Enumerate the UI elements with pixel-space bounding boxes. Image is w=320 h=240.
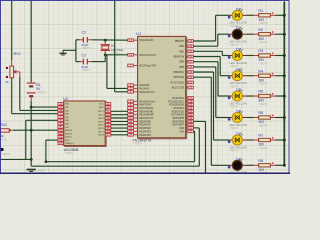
wire <box>218 33 229 35</box>
wire <box>205 121 207 173</box>
U1 pin 33 RB0/INT <box>175 39 193 43</box>
U1 pin 7 RA5/AN4/SS <box>128 106 154 110</box>
node <box>283 14 286 17</box>
wire <box>107 87 128 89</box>
svg-text:C2: C2 <box>82 30 87 34</box>
U1 pin 6 RA4/T0CKI <box>128 103 152 107</box>
U1 pin 3 RA1/AN1 <box>128 86 150 90</box>
potentiometer RV2 <box>1 123 13 141</box>
wire <box>193 56 220 58</box>
svg-text:RB7/PGD: RB7/PGD <box>174 76 185 79</box>
svg-text:RB6/PGC: RB6/PGC <box>174 71 185 74</box>
node <box>283 74 286 77</box>
wire <box>193 66 215 68</box>
LED D2 <box>229 26 247 47</box>
wire <box>75 40 77 62</box>
node <box>228 76 231 79</box>
svg-text:VREF(+): VREF(+) <box>65 143 74 145</box>
wire OSC2 net <box>105 54 128 56</box>
wire <box>76 61 80 63</box>
U1 pin 38 RB5 <box>179 65 193 69</box>
node <box>30 129 33 132</box>
U1 pin 5 RA3/AN3/Vref+ <box>128 99 156 103</box>
wire <box>11 78 13 114</box>
svg-text:<TEXT>: <TEXT> <box>258 102 268 106</box>
U2 pin 21 OUT1 <box>98 110 111 113</box>
U1 pin 10 RE2/AN7/CS <box>128 116 154 120</box>
svg-text:ADD A: ADD A <box>65 129 72 132</box>
svg-text:<TEXT>: <TEXT> <box>37 169 47 173</box>
ADC U2 ADC0808 <box>63 96 106 155</box>
crystal X1 <box>100 40 124 55</box>
node <box>283 139 286 142</box>
U1 pin 26 RC7/RX/DT <box>171 113 193 117</box>
svg-text:RA2/AN2/Vref-: RA2/AN2/Vref- <box>139 91 155 94</box>
svg-text:<TEXT>: <TEXT> <box>111 52 121 55</box>
wire <box>45 140 47 162</box>
wire <box>220 75 229 77</box>
svg-text:<TEXT>: <TEXT> <box>229 43 239 47</box>
U1 pin 29 RD6/PSP6 <box>173 119 194 123</box>
U1 pin 27 RD4/PSP4 <box>128 133 152 137</box>
U1 pin 35 RB2 <box>179 49 193 53</box>
resistor R3 <box>247 49 284 65</box>
svg-text:<TEXT>: <TEXT> <box>1 152 11 156</box>
U1 pin 11 VDD <box>179 126 193 130</box>
U1 pin 21 RD2/PSP2 <box>128 126 152 130</box>
svg-text:ADD C: ADD C <box>65 136 72 139</box>
U2 pin 24 ADD B <box>58 132 73 135</box>
svg-text:C3: C3 <box>82 54 87 58</box>
potentiometer RV1 <box>6 52 21 84</box>
svg-text:OUT5: OUT5 <box>98 125 105 127</box>
svg-text:OSC2/CLKOUT: OSC2/CLKOUT <box>139 54 156 57</box>
resistor R7 <box>247 134 284 150</box>
wire <box>193 50 222 52</box>
U2 pin 22 ALE <box>58 139 70 142</box>
LED D8 <box>229 157 247 178</box>
U2 pin 23 ADD C <box>58 136 73 139</box>
U2 pin 5 IN7 <box>58 126 70 129</box>
wire <box>114 1 116 92</box>
wire <box>218 95 229 97</box>
svg-text:OUT8: OUT8 <box>98 135 105 137</box>
svg-text:OUT6: OUT6 <box>98 128 105 130</box>
U2 pin 12 VREF(+) <box>58 142 74 145</box>
wire <box>193 61 218 63</box>
resistor R2 <box>247 28 284 44</box>
wire <box>193 45 217 47</box>
wire <box>115 91 128 93</box>
U1 pin 20 RD1/PSP1 <box>128 123 152 127</box>
svg-text:RC1/T1OSI: RC1/T1OSI <box>172 87 185 90</box>
wire <box>46 139 58 141</box>
svg-text:RB5: RB5 <box>179 66 184 69</box>
svg-text:ALE: ALE <box>65 139 70 142</box>
U1 pin 1 MCLR/Vpp/THV <box>128 64 157 68</box>
U1 pin 17 RC2/CCP1 <box>172 96 193 100</box>
wire <box>213 72 215 140</box>
U1 pin 8 RE0/AN5/RD <box>128 109 154 113</box>
wire <box>63 49 76 51</box>
svg-text:R4: R4 <box>258 69 263 73</box>
U1 pin 39 RB6/PGC <box>174 70 194 74</box>
wire <box>11 1 13 60</box>
resistor R4 <box>247 69 284 85</box>
capacitor C3 <box>80 54 93 72</box>
U1 pin 14 OSC2/CLKOUT <box>128 53 157 57</box>
U1 pin 12 VSS <box>179 129 193 133</box>
svg-text:RB1: RB1 <box>179 45 184 48</box>
node <box>283 116 286 119</box>
node <box>104 39 107 42</box>
svg-text:RV2: RV2 <box>1 123 8 127</box>
svg-text:R6: R6 <box>258 111 263 115</box>
wire <box>193 76 211 78</box>
U1 pin 25 RC6/TX/CK <box>172 109 194 113</box>
U2 pin 17 OUT8 <box>98 134 111 137</box>
svg-text:47%: 47% <box>1 138 7 142</box>
LED D6 <box>229 110 247 131</box>
U1 pin 2 RA0/AN0 <box>128 83 150 87</box>
svg-text:RB3/PGM: RB3/PGM <box>173 56 184 59</box>
LED D5 <box>229 88 247 109</box>
U2 pin 15 OUT6 <box>98 127 111 130</box>
wire <box>193 120 205 122</box>
svg-text:RD4/PSP4: RD4/PSP4 <box>139 134 151 137</box>
node <box>283 54 286 57</box>
wire <box>19 77 21 111</box>
wire <box>216 117 229 119</box>
wire <box>111 114 128 116</box>
wire <box>215 15 217 41</box>
wire <box>92 61 105 63</box>
node <box>228 16 231 19</box>
U2 pin 3 IN5 <box>58 119 70 122</box>
wire <box>20 109 58 111</box>
sheet border frame <box>1 1 290 174</box>
U1 pin 9 RE1/AN6/WR <box>128 113 154 117</box>
U2 pin 19 OUT3 <box>98 117 111 120</box>
node <box>283 95 286 98</box>
ground <box>59 50 66 55</box>
U1 pin 13 OSC1/CLKIN <box>128 38 154 42</box>
wire <box>198 128 200 166</box>
wire <box>111 134 128 136</box>
node <box>45 160 48 163</box>
wire <box>111 127 128 129</box>
U1 pin 16 RC1/T1OSI <box>172 86 194 90</box>
svg-text:MCLR/Vpp/THV: MCLR/Vpp/THV <box>139 65 157 68</box>
svg-text:<TEXT>: <TEXT> <box>82 47 92 50</box>
wire <box>111 110 128 112</box>
battery B1 <box>27 82 47 101</box>
U2 pin 13 GND <box>99 106 111 109</box>
svg-text:GND: GND <box>99 107 104 109</box>
svg-text:R5: R5 <box>258 90 263 94</box>
svg-text:<TEXT>: <TEXT> <box>82 69 92 72</box>
svg-text:<TEXT>: <TEXT> <box>133 142 143 146</box>
wire <box>221 51 223 55</box>
wire <box>1 158 31 160</box>
node terminal <box>0 148 3 151</box>
U1 pin 18 RC3/SCK/SCL <box>168 99 193 103</box>
svg-text:R8: R8 <box>258 159 263 163</box>
svg-text:RC0/T1OSO: RC0/T1OSO <box>171 81 185 84</box>
U2 pin 2 IN4 <box>58 116 70 119</box>
wire <box>104 55 106 62</box>
U1 pin 22 RD3/PSP3 <box>128 129 152 133</box>
wire <box>193 40 215 42</box>
svg-text:ADD B: ADD B <box>65 132 72 135</box>
node <box>228 118 231 121</box>
svg-text:R1: R1 <box>258 9 263 13</box>
LED D7 <box>229 132 247 153</box>
U1 pin 23 RC4/SDI/SDA <box>169 103 193 107</box>
U2 pin 28 IN2 <box>58 109 70 112</box>
wire <box>111 120 128 122</box>
wire <box>214 139 230 141</box>
U2 pin 8 OUT5 <box>98 123 111 126</box>
wire <box>194 131 196 161</box>
svg-text:R3: R3 <box>258 49 263 53</box>
svg-text:U2: U2 <box>63 96 69 101</box>
wire <box>26 119 58 121</box>
svg-text:R2: R2 <box>258 28 263 32</box>
wire <box>217 62 219 96</box>
node <box>30 158 33 161</box>
U1 pin 19 RD0/PSP0 <box>128 119 152 123</box>
wire <box>31 165 199 167</box>
svg-text:<TEXT>: <TEXT> <box>258 146 268 150</box>
wire <box>211 164 229 166</box>
node <box>283 33 286 36</box>
svg-text:U1: U1 <box>136 31 142 36</box>
U1 pin 34 RB1 <box>179 44 193 48</box>
wire <box>106 55 108 89</box>
U2 pin 27 IN1 <box>58 106 70 109</box>
wire <box>217 34 219 46</box>
svg-text:RB0/INT: RB0/INT <box>175 40 185 43</box>
svg-text:OUT4: OUT4 <box>98 121 105 123</box>
node <box>228 96 231 99</box>
wire <box>222 55 229 57</box>
resistor R6 <box>247 111 284 127</box>
svg-text:RV1: RV1 <box>14 52 21 56</box>
U2 pin 1 IN3 <box>58 112 70 115</box>
U1 pin 40 RB7/PGD <box>174 75 194 79</box>
U1 pin 36 RB3/PGM <box>173 55 193 59</box>
svg-text:RB4: RB4 <box>179 61 184 64</box>
U2 pin 11 VCC <box>99 103 111 106</box>
svg-text:<TEXT>: <TEXT> <box>229 126 239 130</box>
U1 pin 30 RD7/PSP7 <box>173 123 194 127</box>
svg-text:R7: R7 <box>258 134 263 138</box>
svg-text:9V: 9V <box>36 87 41 91</box>
svg-text:<TEXT>: <TEXT> <box>258 61 268 65</box>
svg-text:<TEXT>: <TEXT> <box>258 40 268 44</box>
wire <box>193 71 213 73</box>
svg-text:OUT2: OUT2 <box>98 115 105 117</box>
svg-text:RB2: RB2 <box>179 50 184 53</box>
ground <box>27 169 47 173</box>
wire power rail <box>283 2 285 166</box>
resistor R8 <box>247 159 284 175</box>
U1 pin 15 RC0/T1OSO <box>171 80 194 84</box>
svg-text:1k: 1k <box>6 80 10 84</box>
wire <box>31 106 58 108</box>
wire <box>25 120 27 159</box>
svg-text:<TEXT>: <TEXT> <box>36 91 46 95</box>
svg-text:VCC: VCC <box>99 104 104 106</box>
U1 pin 37 RB4 <box>179 60 193 64</box>
wire <box>30 1 32 82</box>
node <box>104 53 107 56</box>
wire <box>210 77 212 165</box>
svg-text:OUT1: OUT1 <box>98 111 105 113</box>
node <box>228 56 231 59</box>
U2 pin 14 OUT7 <box>98 130 111 133</box>
LED D4 <box>229 68 247 89</box>
svg-text:OUT7: OUT7 <box>98 131 105 133</box>
wire <box>76 39 80 41</box>
wire <box>193 127 199 129</box>
wire <box>111 130 128 132</box>
U1 pin 28 RD5/PSP5 <box>173 116 194 120</box>
wire <box>13 129 58 131</box>
svg-text:<TEXT>: <TEXT> <box>258 82 268 86</box>
U2 pin 20 OUT2 <box>98 113 111 116</box>
svg-text:<TEXT>: <TEXT> <box>64 151 74 155</box>
svg-text:<TEXT>: <TEXT> <box>258 21 268 25</box>
LED D1 <box>229 7 247 28</box>
U2 pin 4 IN6 <box>58 122 70 125</box>
U1 pin 4 RA2/AN2/Vref- <box>128 90 155 94</box>
svg-text:<TEXT>: <TEXT> <box>229 149 239 153</box>
wire <box>193 130 194 132</box>
resistor R5 <box>247 90 284 106</box>
U2 pin 26 IN0 <box>58 103 70 106</box>
wire <box>30 101 32 166</box>
U2 pin 25 ADD A <box>58 129 73 132</box>
node <box>228 35 231 38</box>
wire <box>12 113 58 115</box>
wire <box>219 57 221 76</box>
LED D3 <box>229 48 247 69</box>
wire <box>111 124 128 126</box>
resistor R1 <box>247 9 284 25</box>
node <box>283 164 286 167</box>
wire <box>111 117 128 119</box>
node <box>228 166 231 169</box>
capacitor C2 <box>80 30 93 50</box>
wire OSC1 net <box>92 39 128 41</box>
wire <box>216 14 230 16</box>
U1 pin 24 RC5/SDO <box>173 106 193 110</box>
U2 pin 18 OUT4 <box>98 120 111 123</box>
node <box>228 140 231 143</box>
svg-text:VSS: VSS <box>179 130 184 133</box>
svg-text:<TEXT>: <TEXT> <box>229 105 239 109</box>
wire <box>215 67 217 118</box>
svg-text:OUT3: OUT3 <box>98 118 105 120</box>
wire <box>46 161 195 163</box>
microcontroller U1 PIC16F877A <box>133 31 187 146</box>
svg-text:OSC1/CLKIN: OSC1/CLKIN <box>139 39 153 42</box>
node <box>30 106 33 109</box>
svg-text:<TEXT>: <TEXT> <box>258 123 268 127</box>
